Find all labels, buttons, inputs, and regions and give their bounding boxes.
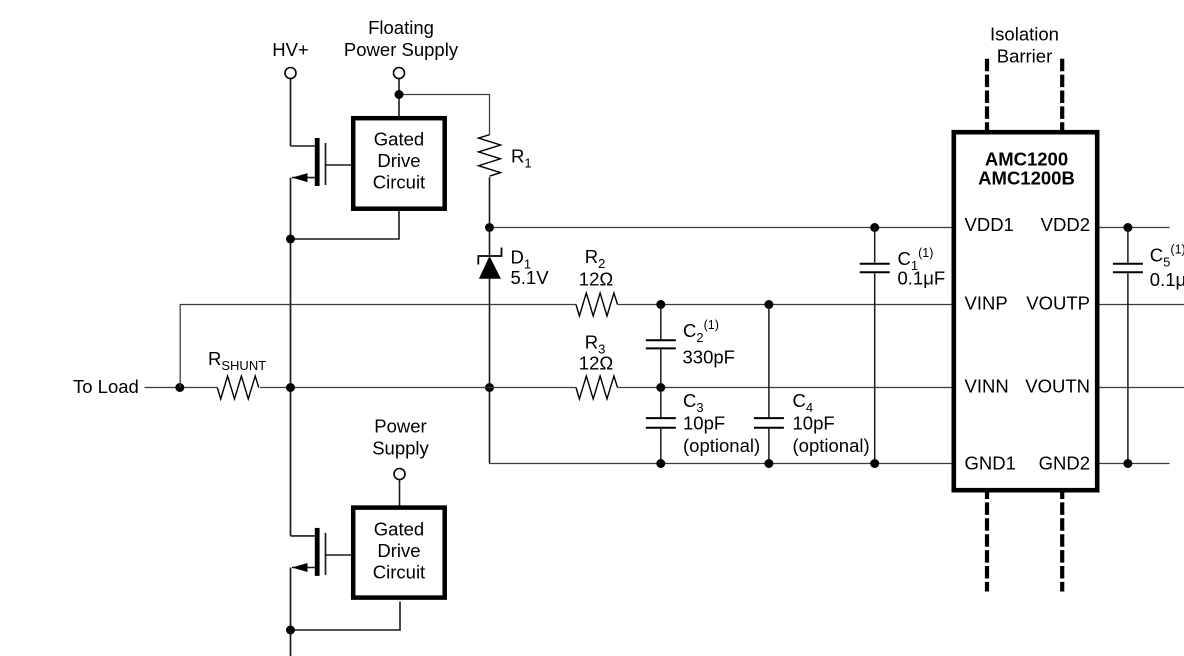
junction D1 line / VINN	[485, 383, 494, 392]
svg-text:Drive: Drive	[377, 540, 420, 561]
node HV+ terminal	[272, 39, 309, 79]
svg-text:10pF: 10pF	[683, 413, 725, 434]
svg-text:Power Supply: Power Supply	[344, 39, 459, 60]
op-amp U2 AMC1200	[954, 132, 1097, 490]
wire VOUTP net	[1100, 304, 1184, 306]
capacitor C4 10pF	[754, 300, 870, 464]
svg-text:HV+: HV+	[272, 39, 309, 60]
wire VINP kelvin	[180, 305, 576, 388]
svg-text:VINP: VINP	[965, 293, 1008, 314]
svg-text:5.1V: 5.1V	[511, 267, 550, 288]
junction C4 GND1	[764, 459, 773, 468]
wire R1 bottom	[489, 177, 491, 227]
junction at floating supply	[395, 90, 404, 99]
junction C3 GND1	[656, 459, 665, 468]
svg-text:To Load: To Load	[73, 376, 139, 397]
svg-text:330pF: 330pF	[683, 347, 735, 368]
junction shunt left	[175, 383, 184, 392]
transistor Q2	[291, 528, 352, 576]
svg-text:0.1μF: 0.1μF	[898, 268, 946, 289]
junction R1/D1/VDD1	[485, 223, 494, 232]
resistor RSHUNT	[208, 348, 266, 399]
svg-text:VINN: VINN	[965, 376, 1009, 397]
svg-text:(optional): (optional)	[793, 435, 870, 456]
wire GND1 net	[490, 463, 952, 465]
svg-text:10pF: 10pF	[793, 413, 835, 434]
junction rail/box2	[286, 626, 295, 635]
svg-text:GND1: GND1	[965, 453, 1016, 474]
wire floating supply to R1	[399, 95, 490, 135]
op-amp U3 gated drive circuit box 2	[353, 508, 445, 598]
svg-text:VDD2: VDD2	[1041, 214, 1090, 235]
svg-text:Floating: Floating	[368, 17, 434, 38]
svg-text:Circuit: Circuit	[373, 172, 425, 193]
svg-text:Gated: Gated	[374, 519, 424, 540]
wire isolation barrier dashed right top	[1060, 59, 1064, 131]
capacitor C2 330pF	[646, 300, 735, 388]
op-amp U1 gated drive circuit box 1	[353, 118, 445, 209]
svg-text:12Ω: 12Ω	[579, 353, 614, 374]
svg-text:VOUTP: VOUTP	[1026, 293, 1090, 314]
wire Q1 source down rail	[290, 178, 292, 388]
wire GND2 net	[1100, 463, 1170, 465]
junction rail/box1	[286, 235, 295, 244]
wire R3 to VINN pin	[618, 387, 952, 389]
svg-text:Barrier: Barrier	[997, 46, 1053, 67]
resistor R2	[576, 246, 618, 316]
wire VDD1 net	[490, 227, 952, 229]
wire Q2 source down rail	[290, 568, 292, 656]
svg-text:Isolation: Isolation	[990, 24, 1059, 45]
wire to load	[145, 387, 218, 389]
wire isolation barrier dashed right bottom	[1060, 487, 1064, 592]
node Floating Power Supply terminal	[344, 17, 459, 79]
svg-text:VDD1: VDD1	[965, 214, 1014, 235]
wire floating supply to box1	[398, 79, 400, 117]
wire rail node B to Q2 drain	[290, 388, 292, 536]
wire shunt to VINN net	[260, 387, 576, 389]
wire isolation barrier dashed left bottom	[985, 487, 989, 592]
junction rail/shunt	[286, 383, 295, 392]
svg-text:AMC1200B: AMC1200B	[978, 168, 1075, 189]
wire VDD2 net	[1100, 227, 1170, 229]
wire power supply to box2	[399, 480, 401, 506]
capacitor C1 0.1uF	[860, 223, 945, 464]
wire R2 to VINP pin	[618, 304, 952, 306]
wire box2 bottom to rail	[291, 602, 401, 631]
node Power Supply terminal	[372, 416, 429, 480]
svg-text:VOUTN: VOUTN	[1025, 376, 1090, 397]
svg-text:AMC1200: AMC1200	[985, 149, 1068, 170]
wire box1 bottom to rail	[291, 211, 400, 239]
svg-text:(optional): (optional)	[683, 435, 760, 456]
junction C5 GND2	[1123, 459, 1132, 468]
wire VOUTN net	[1100, 387, 1184, 389]
svg-text:Gated: Gated	[374, 129, 424, 150]
resistor R1	[479, 135, 532, 176]
svg-text:Circuit: Circuit	[373, 562, 425, 583]
svg-text:GND2: GND2	[1039, 453, 1090, 474]
resistor R3	[576, 332, 618, 400]
junction C2/C3 VINN	[656, 383, 665, 392]
svg-text:12Ω: 12Ω	[579, 269, 614, 290]
diode D1 zener 5.1V	[478, 228, 549, 464]
svg-text:Drive: Drive	[377, 150, 420, 171]
junction C1 GND1	[870, 459, 879, 468]
svg-text:0.1μF: 0.1μF	[1150, 269, 1184, 290]
transistor Q1	[291, 138, 352, 186]
svg-text:Power: Power	[374, 416, 426, 437]
wire HV+ rail top	[290, 79, 292, 147]
svg-text:Supply: Supply	[372, 438, 429, 459]
wire isolation barrier dashed left top	[985, 59, 989, 131]
capacitor C5 0.1uF	[1113, 223, 1184, 464]
capacitor C3 10pF	[646, 388, 760, 464]
